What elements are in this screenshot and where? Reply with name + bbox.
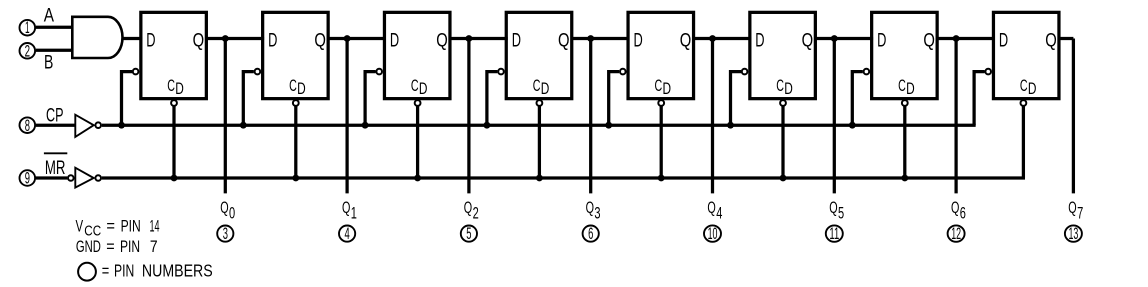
svg-text:14: 14 bbox=[150, 216, 160, 235]
wire clock branch to FF2 bbox=[243, 72, 254, 126]
svg-text:D: D bbox=[512, 31, 521, 52]
MR inverter output bubble bbox=[95, 175, 101, 181]
svg-text:V: V bbox=[76, 216, 84, 235]
svg-text:PIN: PIN bbox=[120, 237, 140, 256]
wire FF5 Q to FF6 D bbox=[693, 37, 752, 40]
svg-text:4: 4 bbox=[345, 224, 350, 243]
svg-text:7: 7 bbox=[150, 237, 158, 256]
svg-text:1: 1 bbox=[25, 18, 30, 37]
svg-text:3: 3 bbox=[594, 204, 600, 222]
pin 1 circle bbox=[20, 18, 36, 37]
svg-text:Q: Q bbox=[314, 31, 326, 52]
svg-text:D: D bbox=[1028, 80, 1037, 98]
flip-flop FF6 box bbox=[750, 12, 816, 98]
svg-text:PIN: PIN bbox=[121, 216, 141, 235]
node Q4 label bbox=[707, 198, 722, 222]
pin 10 circle (Q4 output) bbox=[704, 224, 721, 243]
junction dot node Q3 bbox=[587, 35, 594, 42]
node Q3 label bbox=[586, 198, 601, 222]
svg-text:CP: CP bbox=[46, 106, 63, 127]
FF5 pin CD label bbox=[655, 77, 672, 98]
node Q2 label bbox=[464, 198, 479, 222]
node Q7 label bbox=[1068, 198, 1083, 222]
wire FF8 Q output bbox=[1058, 37, 1074, 40]
junction dot MR line at FF6 bbox=[780, 175, 787, 182]
svg-text:6: 6 bbox=[960, 204, 966, 222]
junction dot MR line at FF3 bbox=[414, 175, 421, 182]
svg-text:Q: Q bbox=[558, 31, 570, 52]
svg-text:PIN: PIN bbox=[114, 261, 134, 281]
junction dot clock line at FF3 bbox=[362, 122, 369, 129]
svg-text:Q: Q bbox=[923, 31, 935, 52]
wire Q4 output vertical bbox=[711, 39, 714, 194]
wire Q0 output vertical bbox=[224, 39, 227, 194]
pin 5 circle (Q2 output) bbox=[461, 224, 477, 243]
legend pin-number circle bbox=[78, 263, 96, 281]
FF3 clock input bubble bbox=[376, 69, 382, 75]
svg-text:9: 9 bbox=[25, 169, 30, 188]
FF6 pin CD label bbox=[776, 77, 793, 98]
junction dot node Q5 bbox=[831, 35, 838, 42]
FF4 clock input bubble bbox=[498, 69, 504, 75]
junction dot node Q4 bbox=[709, 35, 716, 42]
FF3 pin CD label bbox=[411, 77, 428, 98]
svg-text:2: 2 bbox=[473, 204, 479, 222]
CP clock line bbox=[102, 124, 976, 127]
pin 2 circle bbox=[20, 41, 36, 60]
FF7 CD input bubble bbox=[902, 100, 908, 106]
svg-text:2: 2 bbox=[25, 41, 30, 60]
legend = PIN NUMBERS note bbox=[102, 261, 213, 281]
wire clock branch to FF8 bbox=[974, 72, 985, 126]
svg-text:Q: Q bbox=[342, 198, 350, 217]
FF2 clock input bubble bbox=[255, 69, 261, 75]
svg-text:=: = bbox=[106, 237, 114, 256]
svg-text:Q: Q bbox=[829, 198, 837, 217]
VCC = PIN 14 note bbox=[76, 216, 160, 239]
junction dot clock line at FF1 bbox=[118, 122, 125, 129]
GND = PIN 7 note bbox=[76, 237, 158, 256]
wire pin8 to CP buffer bbox=[36, 124, 76, 127]
svg-text:D: D bbox=[784, 80, 793, 98]
junction dot clock line at FF4 bbox=[484, 122, 491, 129]
FF5 clock input bubble bbox=[620, 69, 626, 75]
svg-text:C: C bbox=[776, 77, 784, 95]
junction dot clock line at FF5 bbox=[605, 122, 612, 129]
FF1 pin CD label bbox=[167, 77, 184, 98]
wire FF6 Q to FF7 D bbox=[814, 37, 873, 40]
svg-text:D: D bbox=[146, 31, 155, 52]
wire FF1 Q to FF2 D bbox=[205, 37, 264, 40]
junction dot MR line at FF5 bbox=[658, 175, 665, 182]
svg-text:C: C bbox=[167, 77, 175, 95]
FF5 CD input bubble bbox=[658, 100, 664, 106]
wire clock branch to FF3 bbox=[365, 72, 376, 126]
pin 8 circle bbox=[20, 116, 36, 135]
svg-text:3: 3 bbox=[223, 224, 228, 243]
svg-text:1: 1 bbox=[351, 204, 357, 222]
svg-text:D: D bbox=[541, 80, 550, 98]
wire FF4 Q to FF5 D bbox=[571, 37, 630, 40]
junction dot node Q2 bbox=[466, 35, 473, 42]
wire Q5 output vertical bbox=[833, 39, 836, 194]
svg-text:5: 5 bbox=[838, 204, 844, 222]
node Q1 label bbox=[342, 198, 357, 222]
svg-text:C: C bbox=[898, 77, 906, 95]
svg-text:12: 12 bbox=[951, 224, 961, 243]
AND gate U1 bbox=[72, 17, 122, 58]
junction dot clock line at FF7 bbox=[849, 122, 856, 129]
MR inverter input bubble bbox=[68, 175, 74, 181]
svg-text:5: 5 bbox=[466, 224, 471, 243]
svg-text:A: A bbox=[44, 6, 54, 27]
svg-text:Q: Q bbox=[1045, 31, 1057, 52]
FF4 CD input bubble bbox=[537, 100, 543, 106]
pin 6 circle (Q3 output) bbox=[583, 224, 599, 243]
wire FF6 CD to MR line bbox=[781, 107, 784, 179]
svg-text:8: 8 bbox=[25, 116, 30, 135]
node Q5 label bbox=[829, 198, 844, 222]
wire FF8 CD to MR line bbox=[1022, 107, 1025, 179]
junction dot MR line at FF1 bbox=[171, 175, 178, 182]
junction dot MR line at FF4 bbox=[536, 175, 543, 182]
FF3 CD input bubble bbox=[415, 100, 421, 106]
wire clock branch to FF5 bbox=[609, 72, 620, 126]
MR reset line bbox=[102, 176, 1025, 179]
FF6 CD input bubble bbox=[780, 100, 786, 106]
wire FF1 CD to MR line bbox=[172, 107, 175, 179]
wire clock branch to FF1 bbox=[122, 72, 133, 126]
wire FF7 CD to MR line bbox=[903, 107, 906, 179]
pin 3 circle (Q0 output) bbox=[217, 224, 233, 243]
flip-flop FF1 box bbox=[141, 12, 207, 98]
FF7 clock input bubble bbox=[864, 69, 870, 75]
FF6 clock input bubble bbox=[742, 69, 748, 75]
svg-text:C: C bbox=[655, 77, 663, 95]
svg-text:D: D bbox=[663, 80, 672, 98]
svg-text:Q: Q bbox=[220, 198, 228, 217]
FF8 CD input bubble bbox=[1021, 100, 1027, 106]
wire Q6 output vertical bbox=[954, 39, 957, 194]
FF8 clock input bubble bbox=[985, 69, 991, 75]
svg-text:Q: Q bbox=[951, 198, 959, 217]
junction dot MR line at FF2 bbox=[292, 175, 299, 182]
wire FF4 CD to MR line bbox=[538, 107, 541, 179]
svg-text:C: C bbox=[533, 77, 541, 95]
FF2 CD input bubble bbox=[293, 100, 299, 106]
FF2 pin CD label bbox=[289, 77, 306, 98]
wire Q1 output vertical bbox=[345, 39, 348, 194]
wire Q7 output vertical bbox=[1072, 39, 1075, 194]
junction dot clock line at FF6 bbox=[727, 122, 734, 129]
wire FF3 Q to FF4 D bbox=[449, 37, 508, 40]
svg-text:Q: Q bbox=[586, 198, 594, 217]
flip-flop FF5 box bbox=[628, 12, 694, 98]
svg-text:C: C bbox=[1020, 77, 1028, 95]
MR label with overline bbox=[44, 153, 67, 179]
wire pin1 to AND gate input A bbox=[36, 26, 73, 29]
svg-text:Q: Q bbox=[436, 31, 448, 52]
svg-text:D: D bbox=[634, 31, 643, 52]
svg-text:11: 11 bbox=[829, 224, 839, 243]
node Q0 label bbox=[220, 198, 235, 222]
svg-text:D: D bbox=[755, 31, 764, 52]
svg-text:D: D bbox=[297, 80, 306, 98]
svg-text:D: D bbox=[268, 31, 277, 52]
MR inverter U3 bbox=[75, 168, 93, 188]
wire FF2 CD to MR line bbox=[294, 107, 297, 179]
junction dot clock line at FF2 bbox=[240, 122, 247, 129]
svg-text:Q: Q bbox=[464, 198, 472, 217]
svg-text:7: 7 bbox=[1077, 204, 1083, 222]
svg-text:4: 4 bbox=[716, 204, 722, 222]
svg-text:C: C bbox=[411, 77, 419, 95]
svg-text:Q: Q bbox=[1068, 198, 1076, 217]
svg-text:=: = bbox=[106, 216, 115, 235]
svg-text:D: D bbox=[175, 80, 184, 98]
wire clock branch to FF7 bbox=[852, 72, 863, 126]
junction dot node Q6 bbox=[953, 35, 960, 42]
svg-text:Q: Q bbox=[707, 198, 715, 217]
junction dot MR line at FF7 bbox=[901, 175, 908, 182]
svg-text:D: D bbox=[906, 80, 915, 98]
pin 9 circle bbox=[20, 169, 36, 188]
svg-text:Q: Q bbox=[680, 31, 692, 52]
svg-text:D: D bbox=[999, 31, 1008, 52]
wire FF7 Q to FF8 D bbox=[936, 37, 995, 40]
FF7 pin CD label bbox=[898, 77, 915, 98]
FF1 CD input bubble bbox=[171, 100, 177, 106]
svg-text:Q: Q bbox=[193, 31, 205, 52]
junction dot node Q0 bbox=[222, 35, 229, 42]
svg-text:13: 13 bbox=[1069, 224, 1079, 243]
wire clock branch to FF4 bbox=[487, 72, 498, 126]
flip-flop FF8 box bbox=[993, 12, 1058, 98]
flip-flop FF3 box bbox=[384, 12, 450, 98]
svg-text:6: 6 bbox=[588, 224, 593, 243]
pin 13 circle (Q7 output) bbox=[1065, 224, 1082, 243]
wire AND output to FF1 D input bbox=[122, 37, 143, 40]
flip-flop FF7 box bbox=[872, 12, 938, 98]
svg-text:C: C bbox=[289, 77, 297, 95]
wire pin9 to MR inverter bbox=[36, 176, 67, 179]
wire pin2 to AND gate input B bbox=[36, 49, 73, 52]
junction dot node Q1 bbox=[344, 35, 351, 42]
svg-text:NUMBERS: NUMBERS bbox=[142, 261, 213, 281]
CP inverter output bubble bbox=[95, 122, 101, 128]
wire FF2 Q to FF3 D bbox=[327, 37, 386, 40]
flip-flop FF2 box bbox=[263, 12, 329, 98]
pin 4 circle (Q1 output) bbox=[339, 224, 355, 243]
svg-text:0: 0 bbox=[229, 204, 235, 222]
wire Q2 output vertical bbox=[467, 39, 470, 194]
svg-text:D: D bbox=[877, 31, 886, 52]
node Q6 label bbox=[951, 198, 966, 222]
FF8 pin CD label bbox=[1020, 77, 1037, 98]
svg-text:MR: MR bbox=[45, 158, 66, 179]
svg-text:=: = bbox=[102, 261, 109, 281]
pin 11 circle (Q5 output) bbox=[826, 224, 843, 243]
wire FF5 CD to MR line bbox=[660, 107, 663, 179]
FF4 pin CD label bbox=[533, 77, 550, 98]
flip-flop FF4 box bbox=[506, 12, 572, 98]
svg-text:Q: Q bbox=[802, 31, 814, 52]
svg-text:10: 10 bbox=[708, 224, 718, 243]
svg-text:D: D bbox=[390, 31, 399, 52]
svg-text:GND: GND bbox=[76, 237, 101, 256]
svg-text:D: D bbox=[419, 80, 428, 98]
wire Q3 output vertical bbox=[589, 39, 592, 194]
wire clock branch to FF6 bbox=[731, 72, 742, 126]
pin 12 circle (Q6 output) bbox=[948, 224, 965, 243]
svg-text:B: B bbox=[44, 53, 53, 74]
CP inverter U2 bbox=[75, 115, 93, 137]
FF1 clock input bubble bbox=[133, 69, 139, 75]
wire FF3 CD to MR line bbox=[416, 107, 419, 179]
